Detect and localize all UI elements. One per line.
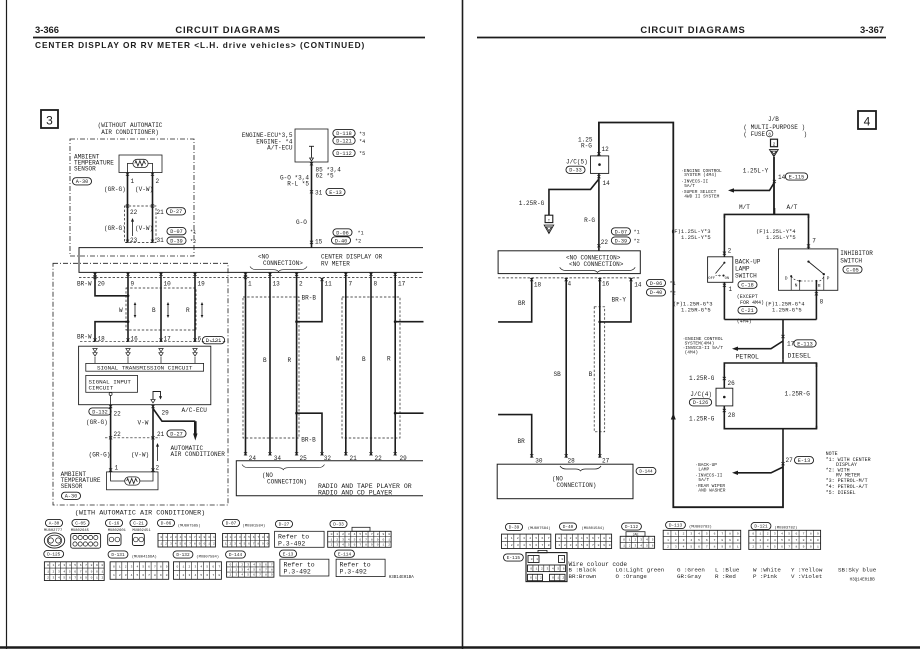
svg-text:CONNECTION): CONNECTION) [557,482,597,489]
svg-text:012: 012 [530,577,545,580]
wire 32 jumper BR-B bottom [297,413,322,455]
wire from back-up switch pin1 [723,282,725,319]
svg-text:1.25R-G: 1.25R-G [785,391,811,398]
svg-text:1: 1 [115,465,119,472]
diesel branch wire [816,363,818,429]
display component box right page [498,251,640,274]
svg-text:CONNECTION>: CONNECTION> [263,260,303,267]
petrol branch wire to J/C(4) [723,363,725,388]
svg-text:5A/T: 5A/T [684,183,695,189]
svg-text:MU802777: MU802777 [44,529,62,533]
svg-text:8: 8 [820,299,824,306]
svg-text:D-39: D-39 [170,238,182,244]
svg-text:SIGNAL TRANSMISSION CIRCUIT: SIGNAL TRANSMISSION CIRCUIT [97,365,193,372]
wire 4 SB [565,278,567,458]
svg-text:E-115: E-115 [789,174,805,180]
svg-text:RV METER: RV METER [321,261,350,268]
svg-text:P: P [827,276,830,282]
svg-text:D-40: D-40 [335,238,347,244]
dashed box around radio wires left group [243,297,299,438]
svg-text:*2: *2 [634,239,640,245]
svg-text:D-06: D-06 [336,230,348,236]
svg-text:A/T: A/T [787,204,798,211]
bottom merge bracket [724,426,816,429]
connector D-131 pinout [108,551,128,558]
svg-text:SENSOR: SENSOR [61,483,83,490]
svg-text:*3: PETROL-M/T: *3: PETROL-M/T [826,478,868,484]
svg-text:*1: *1 [358,231,364,237]
svg-text:R-G: R-G [581,143,592,150]
svg-text:CONNECTION): CONNECTION) [267,478,307,485]
svg-text:01234567: 01234567 [230,563,277,566]
svg-text:D-06: D-06 [161,522,172,527]
svg-text:R: R [818,283,821,289]
svg-text:O :Orange: O :Orange [616,573,648,580]
svg-text:0123456789: 0123456789 [667,533,745,536]
wire to inhibitor pin 7 [808,214,810,249]
svg-text:123456: 123456 [623,544,657,547]
M/T A/T split bracket [724,214,808,218]
up arrow beside V-W wire [157,446,159,461]
wire B pin10 to pin17 [160,272,162,341]
svg-text:*2: *2 [670,291,676,297]
svg-text:*5: DIESEL: *5: DIESEL [826,490,856,496]
left header rule [33,37,425,39]
connector C-21 pinout [130,519,147,526]
svg-text:16: 16 [602,281,610,288]
svg-text:11: 11 [325,281,333,288]
connector ref A-30 (top) [72,178,91,185]
svg-text:12345678901: 12345678901 [331,538,394,541]
svg-text:1: 1 [131,178,135,185]
svg-text:22: 22 [114,431,122,438]
svg-text:R :Red: R :Red [715,573,736,580]
connector D-113 pinout [666,521,686,528]
connector dashed row right page [498,277,640,279]
dashed connector row D-27 (lower) [105,437,160,439]
svg-text:(MU803782): (MU803782) [775,525,798,530]
resistor element in sensor (bottom) [125,477,140,485]
svg-text:22: 22 [130,209,138,216]
wire GR-G pin22 down to sensor pin1 [110,405,112,472]
svg-text:( FUSE: ( FUSE [743,131,765,138]
svg-text:1234567890: 1234567890 [113,574,172,577]
earth ground symbol [545,215,553,222]
connector D-121 pinout [751,522,771,529]
svg-text:15: 15 [315,239,323,246]
svg-text:D-33: D-33 [569,168,581,174]
svg-text:E-115: E-115 [507,556,521,561]
svg-text:12345678901: 12345678901 [47,570,107,573]
svg-text:2: 2 [299,281,303,288]
svg-text:D-118: D-118 [336,131,352,137]
brace under labels [560,267,636,272]
svg-text:17: 17 [398,281,406,288]
ambient temperature sensor (bottom) body [107,472,159,490]
svg-text:A-30: A-30 [49,522,60,527]
svg-text:4WD II SYSTEM: 4WD II SYSTEM [684,194,719,200]
svg-text:C-21: C-21 [133,522,144,527]
svg-text:1.25L-Y*5: 1.25L-Y*5 [681,234,711,241]
wire 13-34 B [269,272,271,455]
svg-text:(V-W): (V-W) [135,186,153,193]
svg-text:26: 26 [728,380,736,387]
svg-text:E-13: E-13 [283,552,294,557]
svg-text:01234567: 01234567 [176,565,224,568]
dash-dot enclosure WITHOUT AUTOMATIC AIR CONDITIONER [70,139,194,256]
svg-text:*4: *4 [359,139,365,145]
svg-text:D-132: D-132 [92,409,108,415]
svg-text:R: R [288,357,292,364]
branch arrow to engine control systems [734,183,774,190]
svg-text:D-07: D-07 [170,229,182,235]
svg-text:(MU801584): (MU801584) [243,524,266,529]
svg-text:B: B [589,371,593,378]
A/C-ECU box [79,346,211,405]
refs D-06 D-40 pin 15 [333,229,352,236]
wire 30 BR elbow bottom [498,415,532,458]
hook arrow to pin 29 inside A/C-ECU [153,392,161,400]
svg-text:D: D [785,276,788,282]
svg-text:23456789012: 23456789012 [331,544,394,547]
svg-text:LAMP: LAMP [698,466,709,472]
branch arrow to back-up lamp etc [738,467,783,473]
connector dashed row under band (left page) [79,277,423,279]
svg-text:1.25L-Y: 1.25L-Y [743,168,769,175]
svg-text:3-367: 3-367 [860,24,884,35]
svg-text:20: 20 [98,281,106,288]
svg-text:<NO CONNECTION>: <NO CONNECTION> [569,261,624,268]
wire R-G from J/C(5) down to display [598,173,600,250]
svg-text:1234567890: 1234567890 [752,539,824,542]
svg-text:3: 3 [46,114,53,128]
brace no connection radio [242,465,325,470]
wire R pin19 to pin6 [194,272,196,341]
svg-text:CENTER DISPLAY OR: CENTER DISPLAY OR [321,254,383,261]
connector D-144 pinout [226,551,246,558]
svg-text:D-132: D-132 [176,553,190,558]
svg-text:12: 12 [602,146,610,153]
svg-text:C-18: C-18 [741,283,753,289]
svg-text:W: W [119,307,123,314]
svg-text:1.25L-Y*5: 1.25L-Y*5 [766,234,796,241]
svg-text:0123456: 0123456 [530,567,568,570]
svg-text:012345678901: 012345678901 [160,536,217,539]
svg-text:MU802451: MU802451 [132,529,151,533]
wire to pin 27 E-13 [782,429,784,464]
connector ref D-132 pin 22 29 [89,408,111,415]
wire G-O from ENGINE-ECU [311,162,313,248]
svg-text:D-40: D-40 [563,525,574,530]
svg-text:D-07: D-07 [615,229,627,235]
svg-text:012: 012 [552,577,568,580]
connector D-39 pinout [505,523,522,530]
wire 16 B [599,278,601,458]
svg-text:N: N [795,283,798,289]
svg-text:D-144: D-144 [639,470,653,475]
ENGINE-ECU box [295,129,328,162]
svg-text:31: 31 [315,190,323,197]
back-up lamp switch box [708,257,733,283]
lead from signal input circuit to pin 22 [109,393,112,396]
merge line of switch outputs [724,319,816,321]
svg-text:01234567890: 01234567890 [47,564,107,567]
svg-text:(GR-G): (GR-G) [104,186,126,193]
svg-text:0: 0 [562,558,568,561]
svg-text:FOR 4M4): FOR 4M4) [740,300,764,306]
svg-text:P.3-492: P.3-492 [284,568,311,575]
svg-text:*2: *2 [355,239,361,245]
wire from inhibitor pin 8 [815,281,817,320]
fuse badge [771,139,778,147]
svg-text:5A/T: 5A/T [698,477,709,483]
dash-dot enclosure WITH AUTOMATIC AIR CONDITIONER [53,263,228,505]
svg-text:(MU807584): (MU807584) [528,526,551,531]
svg-text:BACK-UP: BACK-UP [735,259,761,266]
connector D-132 pinout [173,551,193,558]
svg-text:22: 22 [114,411,122,418]
svg-text:V :Violet: V :Violet [791,573,822,580]
connector D-40 pinout [559,523,576,530]
svg-text:(GR-G): (GR-G) [89,452,111,459]
connector D-06 pinout [157,519,174,526]
svg-text:OFF: OFF [708,277,716,281]
svg-text:(MU807584): (MU807584) [196,555,219,560]
wire GR-G from sensor pin1 [127,173,129,243]
svg-text:BR-B: BR-B [301,437,316,444]
stub wire to next page (upper) [395,321,423,323]
branch to earth ground 1.25R-G [549,179,599,215]
svg-text:19: 19 [198,281,206,288]
svg-text:B: B [362,356,366,363]
svg-text:BR-Y: BR-Y [612,297,627,304]
svg-text:D-121: D-121 [754,525,768,530]
wire 1-24 [245,272,247,455]
terminal nested triangles under fuse [770,150,779,157]
svg-text:R: R [186,307,190,314]
section marker box 3 [41,110,58,128]
svg-text:E-13: E-13 [329,190,341,196]
svg-text:R: R [387,356,391,363]
brace under no connection [250,267,307,272]
svg-text:CIRCUIT: CIRCUIT [89,385,114,392]
svg-text:D-07: D-07 [226,522,237,527]
svg-text:P.3-492: P.3-492 [340,568,367,575]
svg-text:BR-W: BR-W [77,334,92,341]
svg-text:H3B14E01BA: H3B14E01BA [389,576,415,580]
wire V-W pin29 down to sensor pin2 [152,405,154,472]
svg-text:30: 30 [535,457,543,464]
svg-text:1.25R-G*5: 1.25R-G*5 [681,307,711,314]
page left border line [6,0,8,649]
svg-text:C-05: C-05 [75,522,86,527]
svg-text:2345678901: 2345678901 [667,545,745,548]
junction block J/C(5) [591,156,609,174]
petrol branch below J/C(4) [723,406,725,429]
svg-text:A-30: A-30 [76,179,88,185]
main feed wire loop from J/C(5) to page bottom [599,123,783,508]
signal transmission circuit box [86,363,204,371]
right header rule [477,37,886,39]
svg-text:23456789012: 23456789012 [47,576,107,579]
svg-text:*1: *1 [670,281,676,287]
svg-text:C-21: C-21 [741,308,753,314]
connector refs D-118 D-121 D-112 [333,130,355,137]
svg-text:E-113: E-113 [797,341,813,347]
svg-text:D-27: D-27 [170,431,182,437]
svg-text:V-W: V-W [138,420,149,427]
svg-text:D-112: D-112 [336,151,352,157]
wire 17-29 R with stubs to page edge [394,272,396,455]
svg-text:13: 13 [273,281,281,288]
svg-text:0123456789: 0123456789 [752,533,824,536]
svg-text:14: 14 [778,174,786,181]
wire 18 BR elbow [498,278,532,322]
svg-text:AIR CONDITIONER: AIR CONDITIONER [171,451,226,458]
wire 11 jumper BR-B top [297,278,322,322]
svg-text:LAMP: LAMP [735,266,750,273]
svg-text:DIESEL: DIESEL [788,352,812,359]
svg-text:27: 27 [602,457,610,464]
svg-text:CIRCUIT DIAGRAMS: CIRCUIT DIAGRAMS [175,24,280,35]
svg-text:B: B [263,357,267,364]
svg-text:ON: ON [725,277,730,281]
svg-text:D-126: D-126 [693,400,709,406]
svg-text:(GR-G): (GR-G) [104,225,126,232]
svg-text:*2: *2 [190,239,196,245]
svg-text:D-125: D-125 [47,553,61,558]
svg-text:SB:Sky blue: SB:Sky blue [838,567,877,574]
svg-text:14: 14 [603,180,611,187]
svg-text:2: 2 [156,178,160,185]
svg-text:C-16: C-16 [109,522,120,527]
svg-text:E-13: E-13 [798,458,810,464]
svg-text:0123456789: 0123456789 [225,536,271,539]
svg-text:D-27: D-27 [279,523,290,528]
svg-text:21: 21 [157,431,165,438]
resistor element in sensor (top) [133,159,148,167]
svg-text:D-113: D-113 [669,524,683,529]
svg-text:(MU803783): (MU803783) [689,524,712,529]
dashed box around radio wires right group [342,297,400,438]
left branch wire to back-up lamp switch [723,214,725,256]
svg-text:(MU804166A): (MU804166A) [132,555,157,560]
svg-text:21: 21 [157,209,165,216]
connector A-30 pinout [45,519,62,526]
svg-text:SWITCH: SWITCH [735,273,757,280]
svg-text:M/T: M/T [739,204,750,211]
junction block J/C(4) [716,388,733,406]
svg-text:8: 8 [374,281,378,288]
svg-text:2: 2 [728,248,732,255]
signal direction arrow (sensor harness) [132,221,134,236]
svg-text:G-O: G-O [296,219,307,226]
svg-text:D-33: D-33 [333,523,344,528]
svg-text:(MU801584): (MU801584) [582,526,605,531]
svg-text:AND WASHER: AND WASHER [698,488,725,494]
connector D-125 pinout [44,550,64,557]
svg-text:1234567890: 1234567890 [667,539,745,542]
svg-text:PETROL: PETROL [736,353,760,360]
svg-text:3-366: 3-366 [35,24,59,35]
svg-text:D-27: D-27 [170,209,182,215]
wire 18 BR-W with elbow to W wire [95,322,128,342]
connector ref A-30 (bottom) [61,492,80,499]
connector C-16 pinout [105,519,122,526]
svg-text:12345678: 12345678 [505,544,554,547]
connector D-27 refer box [275,520,292,527]
svg-text:012345: 012345 [623,538,657,541]
dashed box around wire B [594,307,605,432]
svg-text:18: 18 [534,282,542,289]
svg-text:2: 2 [773,142,776,148]
center display component band [79,248,423,273]
svg-text:0123456789: 0123456789 [113,565,172,568]
svg-text:1.25R-G: 1.25R-G [689,416,715,423]
svg-text:9: 9 [131,281,135,288]
svg-text:MU802601: MU802601 [108,529,127,533]
svg-text:MU802645: MU802645 [71,529,90,533]
svg-text:123456789012: 123456789012 [160,543,217,546]
connector E-114 refer box [335,550,355,557]
svg-text:D-39: D-39 [615,238,627,244]
branch to automatic air conditioner arrow [153,409,195,422]
svg-text:1.25R-G*5: 1.25R-G*5 [772,307,802,314]
svg-text:01: 01 [531,558,542,561]
svg-text:1234567890: 1234567890 [225,543,271,546]
svg-text:29: 29 [162,410,170,417]
svg-text:D-131: D-131 [206,338,222,344]
svg-text:28: 28 [568,457,576,464]
svg-text:P.3-492: P.3-492 [278,540,305,547]
svg-text:A/T-ECU: A/T-ECU [267,144,293,151]
svg-text:C-05: C-05 [846,267,858,273]
svg-text:R-G: R-G [584,217,595,224]
svg-text:J/C(4): J/C(4) [690,391,712,398]
svg-text:SYSTEM (4M4): SYSTEM (4M4) [684,172,716,178]
svg-text:0123456789: 0123456789 [558,537,614,540]
svg-text:*4: PETROL-A/T: *4: PETROL-A/T [826,484,868,490]
signal input circuit box [86,375,138,392]
svg-text:D-40: D-40 [650,290,662,296]
svg-text:CIRCUIT DIAGRAMS: CIRCUIT DIAGRAMS [640,24,745,35]
svg-text:D-39: D-39 [509,526,520,531]
svg-text:W: W [336,356,340,363]
svg-text:D-06: D-06 [650,281,662,287]
svg-text:(MU807585): (MU807585) [178,524,201,529]
svg-text:22: 22 [601,239,609,246]
svg-text:(V-W): (V-W) [135,225,153,232]
connector ref D-131 [202,337,224,344]
wire V-W from sensor pin2 [152,173,154,243]
branch arrow to engine control 4M4 [738,341,783,349]
svg-text:(V-W): (V-W) [131,452,149,459]
wire 8-22 B [370,272,372,455]
svg-text:BR: BR [518,438,526,445]
svg-text:31: 31 [157,237,165,244]
svg-text:): ) [804,131,808,138]
svg-text:RADIO AND CD PLAYER: RADIO AND CD PLAYER [318,490,392,497]
svg-text:E-114: E-114 [338,552,352,557]
connector ref D-144 right page [636,467,656,474]
svg-text:*3: *3 [359,131,365,137]
ambient temperature sensor (top) body [119,155,162,173]
wire down to pin 17 E-113 [782,320,784,360]
svg-text:7: 7 [349,281,353,288]
connector D-07 pinout [222,519,239,526]
wire 1.25L-Y from J/B [773,157,775,214]
wire W pin9 to pin16 [127,272,129,341]
